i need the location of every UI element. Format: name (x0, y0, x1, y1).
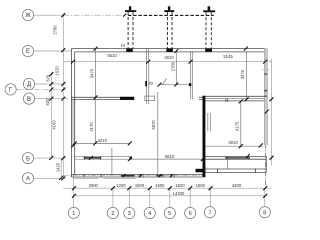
svg-text:А: А (26, 176, 30, 182)
svg-text:6970: 6970 (151, 119, 156, 129)
svg-text:4210: 4210 (98, 138, 108, 143)
svg-text:14400: 14400 (173, 191, 185, 196)
svg-text:В: В (27, 97, 31, 103)
svg-text:6: 6 (189, 211, 192, 217)
svg-text:3: 3 (128, 211, 131, 217)
svg-text:Е: Е (26, 49, 30, 55)
svg-text:1500: 1500 (135, 183, 145, 188)
svg-text:1500: 1500 (196, 183, 206, 188)
svg-text:8: 8 (263, 210, 266, 216)
svg-text:Б: Б (26, 156, 30, 162)
svg-text:4160: 4160 (52, 120, 57, 130)
svg-text:4910: 4910 (228, 140, 238, 145)
svg-text:5510: 5510 (107, 53, 117, 58)
svg-text:1500: 1500 (155, 183, 165, 188)
svg-text:2780: 2780 (53, 25, 58, 35)
svg-text:Д: Д (27, 82, 31, 88)
svg-text:3470: 3470 (240, 69, 245, 79)
svg-text:4170: 4170 (89, 122, 94, 132)
svg-text:1200: 1200 (116, 183, 126, 188)
svg-text:3470: 3470 (90, 68, 95, 78)
svg-text:2780: 2780 (171, 61, 176, 71)
svg-text:4170: 4170 (234, 121, 239, 131)
svg-text:4200: 4200 (232, 183, 242, 188)
svg-text:620: 620 (45, 98, 50, 106)
svg-text:Ж: Ж (25, 13, 31, 19)
svg-text:2810: 2810 (164, 55, 174, 60)
svg-text:5145: 5145 (223, 54, 233, 59)
svg-text:5810: 5810 (165, 154, 175, 159)
svg-text:1420: 1420 (55, 162, 60, 172)
svg-text:1500: 1500 (175, 183, 185, 188)
svg-text:7: 7 (208, 210, 211, 216)
svg-text:2: 2 (111, 211, 114, 217)
svg-text:1520: 1520 (55, 65, 60, 75)
svg-text:3000: 3000 (89, 183, 99, 188)
svg-text:520: 520 (45, 74, 50, 82)
svg-text:1: 1 (72, 211, 75, 217)
svg-text:5: 5 (168, 211, 171, 217)
